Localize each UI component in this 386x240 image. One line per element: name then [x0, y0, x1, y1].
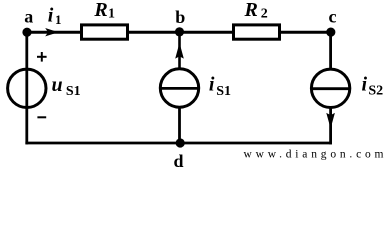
svg-text:d: d	[173, 151, 183, 170]
iS2 arrow head (points down)	[326, 113, 335, 129]
svg-text:i: i	[48, 4, 54, 26]
wire middle vertical upper (b to iS1 circle)	[178, 32, 181, 70]
current source iS1 circle	[160, 69, 198, 107]
svg-text:R: R	[244, 0, 258, 21]
svg-text:1: 1	[108, 7, 115, 22]
svg-text:c: c	[329, 6, 337, 26]
node d dot	[176, 138, 185, 147]
svg-text:R: R	[93, 0, 107, 21]
svg-text:1: 1	[55, 12, 62, 27]
plus sign of uS1	[37, 52, 47, 62]
node b dot	[175, 27, 184, 36]
iS1 arrow head (points up to b)	[175, 43, 184, 59]
iS1 bar	[161, 87, 198, 90]
wire top (a to c)	[27, 31, 331, 34]
wire left vertical (a down through source to bottom)	[25, 32, 28, 144]
wire middle vertical lower (iS1 circle to d)	[178, 107, 181, 144]
svg-text:S1: S1	[216, 84, 231, 99]
svg-text:i: i	[209, 74, 215, 96]
wire right vertical lower (iS2 circle to bottom corner)	[329, 107, 332, 145]
node c dot	[326, 27, 335, 36]
minus sign of uS1	[37, 116, 46, 118]
node a dot	[22, 28, 31, 37]
svg-text:2: 2	[261, 7, 268, 22]
iS2 bar	[312, 87, 349, 90]
svg-text:a: a	[24, 6, 33, 26]
svg-text:b: b	[175, 7, 185, 27]
svg-text:S2: S2	[368, 83, 383, 98]
wire right vertical upper (c to iS2 circle)	[329, 32, 332, 70]
i1 arrow head on top wire	[45, 28, 58, 36]
wire bottom (left corner to right corner through d)	[25, 142, 332, 145]
current source iS2 circle	[311, 69, 349, 107]
svg-text:S1: S1	[66, 84, 81, 99]
voltage source U_S1 circle	[8, 69, 46, 107]
svg-text:i: i	[362, 74, 368, 96]
resistor R1 box	[82, 25, 128, 39]
resistor R2 box	[234, 25, 280, 39]
svg-text:u: u	[51, 74, 62, 96]
